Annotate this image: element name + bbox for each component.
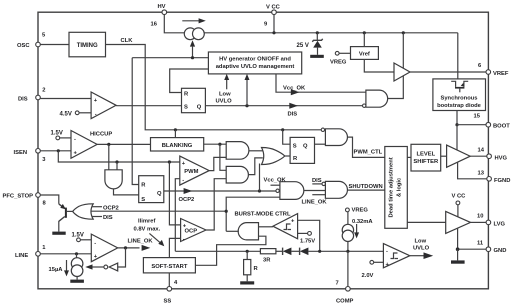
wire drop to hiccup AND input A xyxy=(108,144,110,169)
svg-text:15: 15 xyxy=(474,114,481,120)
and-gate burst mode (mirrored) xyxy=(238,223,258,240)
svg-text:Dead time adjustment: Dead time adjustment xyxy=(389,157,395,217)
pin OSC 5 xyxy=(17,33,46,50)
wire drop to FF3 S input xyxy=(283,130,290,144)
junction DIS to HV block arrow xyxy=(245,74,250,107)
svg-text:UVLO: UVLO xyxy=(413,246,430,252)
svg-text:UVLO: UVLO xyxy=(216,99,233,105)
junction on CLK line at FF3 S drop xyxy=(281,128,284,131)
svg-text:VREG: VREG xyxy=(352,207,369,213)
block LEVEL SHIFTER xyxy=(411,144,441,171)
svg-text:S: S xyxy=(141,197,145,203)
wire ISEN branch down to PWM line xyxy=(58,151,180,162)
wire OCP out up to AND2 in2 xyxy=(206,179,226,230)
and-gate AND2 xyxy=(226,166,248,183)
wire OCP2 from FF2 Q xyxy=(164,188,277,203)
svg-text:2.0V: 2.0V xyxy=(362,273,374,279)
svg-text:CLK: CLK xyxy=(121,38,134,44)
svg-text:2: 2 xyxy=(42,88,45,94)
diode D2 xyxy=(291,248,383,256)
svg-text:BLANKING: BLANKING xyxy=(162,143,193,149)
wire ISEN to HICCUP + xyxy=(40,150,71,152)
wire FGND to driver return xyxy=(458,163,487,179)
svg-text:-: - xyxy=(386,248,388,254)
wire PWM out up to AND1 in2 xyxy=(209,157,226,170)
svg-text:Low: Low xyxy=(415,239,427,245)
svg-text:DIS: DIS xyxy=(103,215,113,221)
pin DIS 2 xyxy=(18,88,45,103)
svg-text:SHUTDOWN: SHUTDOWN xyxy=(349,184,383,190)
svg-text:FGND: FGND xyxy=(494,178,510,184)
flip-flop FF1 DIS latch xyxy=(182,88,206,112)
wire drop to hiccup AND input B from ISEN line xyxy=(115,160,118,163)
wire rail to buffer top xyxy=(402,31,405,34)
svg-text:Q: Q xyxy=(303,144,308,150)
svg-text:Vcc_OK: Vcc_OK xyxy=(283,86,306,92)
wire dead time to level shifter xyxy=(407,156,411,158)
wire HV pin down to current source xyxy=(164,15,184,33)
wire current source line into HV block with left elbow xyxy=(132,57,208,59)
wire hiccup AND out to FF2 S xyxy=(114,189,139,195)
svg-text:OCP2: OCP2 xyxy=(179,197,195,203)
op-amp burst comparator U11 (mirrored) xyxy=(273,214,298,239)
wire HICCUP out to BLANKING xyxy=(97,143,150,145)
svg-text:25 V: 25 V xyxy=(297,43,309,49)
or-gate OR1 xyxy=(262,148,285,165)
wire Vref bottom to buffer input xyxy=(364,59,394,72)
pin PFC_STOP 8 xyxy=(3,193,47,207)
wire OCP- to soft-start top xyxy=(169,238,180,257)
wire PWM- from feedback line xyxy=(175,179,180,252)
pin LVG 10 xyxy=(477,214,505,228)
node Ilimref annotation xyxy=(134,218,165,246)
chip border xyxy=(38,12,488,289)
op-amp VREF buffer U14 xyxy=(394,63,410,81)
wire feedback line COMP xyxy=(175,250,260,252)
svg-text:-: - xyxy=(94,240,96,246)
node Low UVLO output arrow xyxy=(410,239,433,260)
svg-text:SOFT-START: SOFT-START xyxy=(151,264,187,270)
svg-text:S: S xyxy=(184,105,188,111)
svg-text:BURST-MODE CTRL: BURST-MODE CTRL xyxy=(235,212,291,218)
block HV generator / adaptive UVLO management U2 xyxy=(208,52,301,74)
node 4.5V xyxy=(60,111,92,118)
op-amp LVG driver U16 xyxy=(446,211,471,233)
wire base to OR2 xyxy=(67,210,73,212)
svg-text:-: - xyxy=(183,237,185,243)
svg-text:Q: Q xyxy=(197,105,202,111)
svg-text:-: - xyxy=(182,178,184,184)
resistor R xyxy=(240,250,258,285)
block dead time adjustment and logic xyxy=(385,147,408,229)
wire BOOT rail down to HVG driver top xyxy=(456,125,458,150)
current source I1 arrow xyxy=(182,18,206,23)
svg-text:LINE_OK: LINE_OK xyxy=(302,200,328,206)
and-gate SHUTDOWN U10 xyxy=(302,178,348,206)
svg-text:PFC_STOP: PFC_STOP xyxy=(3,194,34,200)
svg-text:Q: Q xyxy=(157,191,162,197)
svg-text:11: 11 xyxy=(477,241,484,247)
flip-flop FF2 OCP2 latch xyxy=(139,176,164,203)
block synchronous bootstrap diode xyxy=(433,79,486,111)
wire AND3 out to dead time block xyxy=(348,137,385,157)
or-gate OR2 (mirrored) xyxy=(73,204,119,221)
node 1.75V xyxy=(298,232,316,245)
svg-text:Synchronous: Synchronous xyxy=(440,96,477,102)
svg-text:3R: 3R xyxy=(263,258,271,264)
svg-text:16: 16 xyxy=(151,22,158,28)
pin SS 4 xyxy=(164,273,179,305)
svg-text:Low: Low xyxy=(219,92,231,98)
node 1.5V hiccup ref xyxy=(51,131,72,140)
pin VCC 9 xyxy=(264,5,281,28)
wire AND2 out elbow to OR1 xyxy=(249,158,263,175)
svg-text:PWM: PWM xyxy=(184,169,198,175)
wire burst comp + from feedback line xyxy=(298,220,320,251)
wire soft-start to burst AND in2 xyxy=(195,236,266,265)
wire AND1 out to OR1 xyxy=(249,150,264,152)
wire enable AND out to buffer bottom xyxy=(388,76,404,99)
wire buffer out to VREF pin xyxy=(410,71,486,73)
node Low UVLO arrow into HV block xyxy=(216,74,233,105)
svg-text:LINE: LINE xyxy=(15,253,28,259)
svg-text:1.5V: 1.5V xyxy=(72,233,84,239)
pin LINE 1 xyxy=(15,245,46,259)
svg-text:15µA: 15µA xyxy=(49,267,64,273)
wire rail elbow into bootstrap box top xyxy=(457,33,459,79)
svg-text:DIS: DIS xyxy=(288,112,298,118)
wire dead time to LVG driver xyxy=(407,221,445,223)
node 2.0V xyxy=(362,260,384,279)
op-amp PWM comparator U7 xyxy=(180,156,209,185)
node 1.5V line ref xyxy=(72,233,92,242)
VCC rail xyxy=(204,32,458,34)
diode D1 xyxy=(276,248,292,256)
wire BLANKING branch to AND2 in1 xyxy=(220,144,226,170)
svg-text:COMP: COMP xyxy=(336,299,354,305)
wire burst comp out to burst AND xyxy=(259,226,273,228)
transistor Q1 PNP xyxy=(40,195,67,235)
svg-text:OCP: OCP xyxy=(185,229,198,235)
block Vref xyxy=(351,47,379,60)
pin BOOT 15 xyxy=(457,114,510,130)
svg-text:VREG: VREG xyxy=(330,60,347,66)
svg-text:V CC: V CC xyxy=(266,5,281,11)
svg-text:HICCUP: HICCUP xyxy=(90,132,112,138)
pin GND 11 xyxy=(458,241,507,255)
svg-text:bootstrap diode: bootstrap diode xyxy=(437,103,482,109)
svg-text:LINE_OK: LINE_OK xyxy=(128,239,154,245)
op-amp HVG driver U15 xyxy=(447,145,471,167)
and-gate hiccup U6 (vertical) xyxy=(105,170,122,189)
wire FF1 R input elbow to HV block xyxy=(170,69,209,93)
svg-text:LVG: LVG xyxy=(494,222,506,228)
pin FGND 13 xyxy=(478,171,511,185)
wire OR1 out to FF3 R xyxy=(285,155,290,157)
svg-text:1.75V: 1.75V xyxy=(300,239,315,245)
svg-text:-: - xyxy=(95,112,97,118)
svg-text:1.5V: 1.5V xyxy=(51,131,63,137)
svg-text:13: 13 xyxy=(478,171,485,177)
wire bootstrap box bottom to BOOT xyxy=(456,111,458,125)
wire rail to Vref top xyxy=(363,31,366,34)
junction on CLK line at BLANKING drop xyxy=(174,128,177,131)
svg-text:OSC: OSC xyxy=(17,43,30,49)
wire DIS pin to comparator xyxy=(40,98,91,100)
svg-text:LEVEL: LEVEL xyxy=(416,151,435,157)
node VREG bias xyxy=(346,207,369,224)
junction COMP drop xyxy=(346,250,349,253)
wire LINE pin to comparator xyxy=(40,253,91,255)
pin ISEN 3 xyxy=(14,149,47,164)
pin VREF 6 xyxy=(478,63,509,77)
wire PWM+ junction down to OCP+ xyxy=(169,162,180,225)
svg-text:0.32mA: 0.32mA xyxy=(352,219,373,225)
flip-flop FF3 main latch xyxy=(290,137,314,163)
current source 0.32mA xyxy=(342,219,373,252)
op-amp DIS comparator U3 xyxy=(91,92,116,119)
svg-text:HV: HV xyxy=(158,4,166,10)
current source I1 (HV startup generator) xyxy=(184,28,204,40)
svg-text:S: S xyxy=(293,144,297,150)
wire DIS signal from FF1 Q to AND xyxy=(205,103,362,118)
zener diode 25V xyxy=(297,31,324,58)
inverter U13 xyxy=(104,248,126,271)
resistor 3R xyxy=(260,249,276,264)
wire current source output down with arrow xyxy=(190,40,195,58)
svg-text:BOOT: BOOT xyxy=(493,124,510,130)
and-gate AND3 PWM_CTL xyxy=(321,128,347,145)
node V CC for LVG driver xyxy=(452,194,467,217)
wire 3AND out to shutdown AND xyxy=(304,190,326,192)
wire comparator out with branch xyxy=(118,247,140,249)
svg-text:Vref: Vref xyxy=(359,51,370,57)
svg-text:Vcc_OK: Vcc_OK xyxy=(264,178,287,184)
svg-text:GND: GND xyxy=(494,248,507,254)
svg-text:& logic: & logic xyxy=(397,177,403,197)
svg-text:OCP2: OCP2 xyxy=(103,205,119,211)
block BLANKING xyxy=(151,138,204,151)
wire Vcc_OK from HV block xyxy=(276,74,366,95)
wire SHUTDOWN to dead time block xyxy=(348,189,385,191)
pin COMP 7 xyxy=(336,251,354,304)
svg-text:-: - xyxy=(74,137,76,143)
block TIMING xyxy=(69,32,106,57)
wire drop to BLANKING top xyxy=(174,130,176,138)
and-gate VREF enable U4 xyxy=(363,90,388,107)
wire BLANKING out to AND1 xyxy=(204,143,227,145)
wire level shifter to HVG driver xyxy=(441,155,447,157)
junction PWM+ on ISEN line xyxy=(168,160,171,163)
svg-text:Ilimref: Ilimref xyxy=(138,218,155,224)
and-gate Vcc_OK 3AND U9 xyxy=(264,178,304,200)
pin HV 16 xyxy=(151,4,167,28)
wire inverter to current source with arrow xyxy=(85,264,104,269)
transistor bootstrap MOSFET xyxy=(451,81,468,92)
block SOFT-START xyxy=(143,258,195,273)
svg-text:+: + xyxy=(94,254,98,260)
svg-text:V CC: V CC xyxy=(452,194,467,200)
wire burst AND to OR2 middle input xyxy=(91,210,226,212)
svg-text:7: 7 xyxy=(336,281,339,287)
and-gate AND1 xyxy=(226,142,249,160)
node VREG reference xyxy=(330,51,351,65)
wire LVG driver to pin xyxy=(471,221,487,223)
svg-text:adaptive UVLO management: adaptive UVLO management xyxy=(216,64,295,70)
svg-text:14: 14 xyxy=(478,148,485,154)
wire LVG driver return to GND xyxy=(457,228,459,249)
svg-text:VREF: VREF xyxy=(493,71,509,77)
wire vertical x=132 down to OCP2 latch R xyxy=(132,58,139,185)
junction burst feedback xyxy=(318,250,321,253)
svg-text:HV generator ON/OFF and: HV generator ON/OFF and xyxy=(219,56,291,62)
current source 15uA xyxy=(49,254,84,283)
wire HVG driver to pin xyxy=(470,155,487,157)
wire CLK from TIMING to long line xyxy=(106,45,322,130)
svg-text:DIS: DIS xyxy=(312,178,322,184)
wire burst riser to 3AND bottom input xyxy=(226,197,280,231)
wire FF3 Q to AND3 xyxy=(315,143,326,145)
node LINE_OK arrow xyxy=(128,239,154,251)
svg-text:HVG: HVG xyxy=(495,156,508,162)
svg-text:4.5V: 4.5V xyxy=(60,112,72,118)
wire VCC pin to rail xyxy=(273,15,275,33)
svg-text:+: + xyxy=(94,98,98,104)
op-amp OCP comparator U8 xyxy=(181,219,206,243)
op-amp LINE comparator U12 xyxy=(91,234,117,262)
wire comparator to FF1 S xyxy=(116,105,181,107)
svg-text:ISEN: ISEN xyxy=(14,150,28,156)
svg-text:0.8V max.: 0.8V max. xyxy=(134,226,161,232)
svg-text:DIS: DIS xyxy=(18,97,28,103)
svg-text:SS: SS xyxy=(164,299,172,305)
svg-text:SHIFTER: SHIFTER xyxy=(413,159,439,165)
op-amp Low UVLO comparator U17 xyxy=(383,244,409,268)
wire OSC to TIMING xyxy=(40,44,69,46)
junction OCP2 line to OR1 bottom input xyxy=(258,189,261,192)
wire burst AND output up xyxy=(226,230,239,232)
ground LVG xyxy=(451,247,465,263)
pin HVG 14 xyxy=(478,148,508,162)
svg-text:10: 10 xyxy=(477,214,483,220)
svg-text:PWM_CTL: PWM_CTL xyxy=(354,149,383,155)
svg-text:TIMING: TIMING xyxy=(77,43,98,49)
op-amp HICCUP comparator U5 xyxy=(71,131,112,159)
